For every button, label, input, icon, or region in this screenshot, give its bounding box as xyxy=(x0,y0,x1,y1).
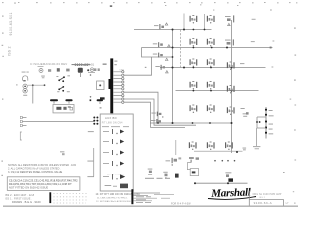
fuse F1 dark body xyxy=(50,99,58,103)
resistor R20 xyxy=(207,81,215,90)
svg-text:NOTES: ALL RESISTORS 1/4W 5% U: NOTES: ALL RESISTORS 1/4W 5% UNLESS STAT… xyxy=(8,164,77,167)
svg-text:AUX BD: AUX BD xyxy=(105,116,117,120)
svg-text:NOT FITTED ON 9100-62 ISSUE: NOT FITTED ON 9100-62 ISSUE xyxy=(9,185,48,189)
svg-text:ISS 2: ISS 2 xyxy=(8,46,12,56)
vertical stub into sigma cluster xyxy=(175,140,177,155)
label marks under trimmer xyxy=(41,76,45,79)
opto stage row 1 arrow Q10 xyxy=(120,130,124,134)
svg-text:2. ALL CAPACITORS IN uF UNLESS: 2. ALL CAPACITORS IN uF UNLESS STATED . xyxy=(8,168,61,171)
output network cluster xyxy=(225,172,233,181)
border zone tick marks top xyxy=(2,2,297,4)
parts table box xyxy=(7,177,80,191)
PCB edge connector polarising bump xyxy=(109,79,111,89)
aux board bottom row marks xyxy=(105,184,128,189)
node dot G xyxy=(87,69,89,71)
capacitor C1 (dark body) xyxy=(78,68,83,77)
revision table rule 3 xyxy=(134,197,170,199)
net mark near bus start xyxy=(145,67,147,68)
resistor R21 xyxy=(227,85,235,94)
wire pin10 to lower bus xyxy=(124,102,185,127)
wire to CN5 upper xyxy=(257,117,266,128)
ground stub 3 xyxy=(87,175,94,178)
dash row lower left xyxy=(145,178,170,179)
vertical net wire long xyxy=(172,30,174,124)
switch SW1b lever xyxy=(57,86,70,92)
resistor R4 xyxy=(66,69,69,72)
resistor R11 xyxy=(207,15,215,24)
svg-text:ISS 2 . ECN 1047 . 12-8: ISS 2 . ECN 1047 . 12-8 xyxy=(5,194,35,197)
marks beside connector top xyxy=(114,61,117,66)
net flag triangle 3 xyxy=(165,58,168,60)
wire pin2 to net xyxy=(124,48,173,76)
svg-text:FIT LINK ON CN4: FIT LINK ON CN4 xyxy=(102,123,123,125)
svg-text:9100-63.S01: 9100-63.S01 xyxy=(9,12,13,35)
resistor R13 xyxy=(190,38,198,47)
ground stub 1 xyxy=(88,130,94,133)
wire pin9 to lower bus xyxy=(124,99,196,125)
PCB edge connector black bar xyxy=(110,58,113,113)
svg-text:DRG No 9100 PWR AMP: DRG No 9100 PWR AMP xyxy=(253,193,282,196)
net flag triangle 2 xyxy=(168,45,171,47)
diode D6 cluster xyxy=(151,119,161,124)
diode D5 cluster xyxy=(151,112,163,118)
svg-text:12. SET BIAS 38mV ACROSS R60: 12. SET BIAS 38mV ACROSS R60 xyxy=(96,200,131,203)
vertical stub top 2 xyxy=(204,14,206,30)
Marshall logo underline swash xyxy=(208,197,256,200)
title block left border xyxy=(248,191,250,206)
junction dot grid node F xyxy=(93,117,98,125)
relay RL1 box xyxy=(53,105,74,113)
opto stage row 3 arrow Q12 xyxy=(120,151,124,155)
drawing file name vertical text left margin xyxy=(9,12,13,35)
opto stage row 1: LED D10 xyxy=(103,129,118,134)
capacitor C3 dark body xyxy=(100,97,105,99)
wire CN3 to aux board xyxy=(27,121,95,123)
opto stage row 5 arrow Q14 xyxy=(120,174,125,179)
opto stage row 4: LED D13 xyxy=(103,161,118,166)
connector CN2 pin leads xyxy=(113,72,121,102)
aux board rule dashes xyxy=(102,125,129,128)
node dot J xyxy=(227,182,229,184)
connector CN5 spine xyxy=(265,107,267,139)
return bus wire xyxy=(150,122,232,124)
resistor R18 xyxy=(227,62,235,71)
capacitor C4 pair xyxy=(94,68,100,71)
revision table rule 2 xyxy=(134,194,174,197)
vertical stub top 1 xyxy=(183,14,185,30)
ground bracket xyxy=(20,132,22,140)
lamp LP1 label xyxy=(22,71,29,74)
resistor R24 xyxy=(227,107,235,116)
fuse F3 dark body xyxy=(97,99,103,104)
connector CN5 pads xyxy=(265,109,267,134)
opto stage row 2 arrow Q11 xyxy=(120,140,124,144)
diode D3 cluster xyxy=(153,53,163,58)
title block divider xyxy=(249,200,283,206)
svg-text:9100-63-A: 9100-63-A xyxy=(254,201,273,205)
title block right ticks xyxy=(293,191,296,203)
resistor R2 xyxy=(48,69,51,72)
net flag triangle 1 xyxy=(165,23,168,25)
resistor R23 xyxy=(207,105,215,114)
resistor R26 xyxy=(207,142,215,151)
node dot D xyxy=(90,74,92,76)
dark tick top centre xyxy=(110,5,112,6)
svg-text:3. C9,C12 DENOTES PANEL CONTRO: 3. C9,C12 DENOTES PANEL CONTROL VALUE xyxy=(8,171,63,174)
IC U2 box xyxy=(190,169,198,176)
connector CN5 pin labels xyxy=(269,110,274,134)
fuse F2 dark body xyxy=(65,99,72,103)
feedback bus wire xyxy=(176,90,259,92)
border zone marks right edge xyxy=(270,10,296,174)
net flag triangle 5 xyxy=(228,23,231,25)
resistor R19 xyxy=(190,81,198,90)
spare dash right col row2 xyxy=(251,40,255,43)
svg-text:ISS 2: ISS 2 xyxy=(259,197,266,199)
resistor R27 xyxy=(225,142,233,151)
node dot B xyxy=(44,84,46,86)
revision table black divider xyxy=(49,192,51,203)
resistor R25 xyxy=(189,142,197,151)
zener ZD1 cluster xyxy=(225,15,234,22)
vertical bus wire col3 xyxy=(231,20,233,153)
svg-text:FOR R-4 P 4-5W: FOR R-4 P 4-5W xyxy=(171,203,191,206)
trimmer VR1 xyxy=(38,66,44,72)
input jack J1 xyxy=(23,84,27,96)
HT supply bus wire xyxy=(134,29,212,31)
node dots CN5 xyxy=(256,121,260,123)
output rail wire xyxy=(195,182,248,184)
bias bus wire xyxy=(142,47,273,49)
node dot I xyxy=(194,182,196,184)
resistor R3 xyxy=(57,68,60,71)
svg-text:C5,C8,C14,C19,C23,C31,C42,R11,: C5,C8,C14,C19,C23,C31,C42,R11,R18,R26,R3… xyxy=(9,178,78,182)
capacitor C2 xyxy=(88,68,95,73)
spare marks right col xyxy=(240,63,245,109)
bus end tick xyxy=(270,47,272,49)
left margin ticks xyxy=(1,16,3,176)
wire aux vertical xyxy=(93,148,95,177)
ground stub marks xyxy=(253,146,260,149)
second row fragment of bold header xyxy=(72,64,91,65)
svg-text:C:\SCHEMA\9100-63 REV: C:\SCHEMA\9100-63 REV xyxy=(30,62,67,66)
resistor R34 xyxy=(163,172,167,179)
lower link wire xyxy=(194,150,243,152)
zener ZD2 cluster xyxy=(225,39,234,45)
revision table rule 1 xyxy=(134,192,160,194)
thermistor TH1 cluster xyxy=(243,112,249,117)
margin tick xyxy=(16,84,18,85)
bracket mark xyxy=(187,163,190,170)
spare dash right col row1 xyxy=(252,18,256,21)
lower link end cluster xyxy=(243,148,247,151)
opto stage row 2: LED D11 xyxy=(103,139,118,144)
wire node row xyxy=(28,84,45,86)
centre black divider tick xyxy=(131,189,133,204)
net flag triangle 4 xyxy=(166,71,169,73)
junction dots on buses xyxy=(157,29,232,125)
connector CN3 pins xyxy=(20,116,26,126)
resistor R14 xyxy=(207,38,215,47)
revision table rule 4 xyxy=(134,200,152,202)
lamp LP1 arch xyxy=(23,76,28,82)
svg-text:11. LINK CN6 PIN 2 TO PIN 4 .: 11. LINK CN6 PIN 2 TO PIN 4 . xyxy=(97,197,128,199)
capacitor C22 xyxy=(148,169,153,175)
vertical net wire dashed xyxy=(180,30,182,70)
opto stage row 5: LED D14 xyxy=(103,174,118,180)
spare gate cluster xyxy=(60,151,65,155)
resistor R22 xyxy=(190,105,198,114)
svg-text:--- -- ---- --: --- -- ---- -- xyxy=(107,173,124,176)
switch SW1a lever xyxy=(56,75,70,82)
wire CN5 down xyxy=(256,128,258,146)
cluster sigma: capacitor C20 xyxy=(166,157,182,165)
node dot E xyxy=(90,96,92,98)
ground stub 2 xyxy=(87,160,93,163)
resistor R17 xyxy=(207,59,215,68)
revision table cell text xyxy=(136,196,151,202)
resistor R16 xyxy=(190,59,198,68)
svg-text:R44,R51,R63,TR4,TR7,D9,D11,ZD3: R44,R51,R63,TR4,TR7,D9,D11,ZD3,VR2,L1,CN… xyxy=(9,182,72,186)
transistor Q22 dark xyxy=(175,174,179,178)
connector CN2 pins xyxy=(122,71,124,104)
drive bus wire xyxy=(160,67,266,69)
component K1 box xyxy=(97,81,104,90)
sheet issue vertical text left margin xyxy=(8,46,12,56)
opto stage row 4 arrow Q13 xyxy=(120,162,124,166)
wire pin7 to lower bus xyxy=(124,92,158,123)
revision table dotted columns xyxy=(54,194,89,203)
node dot H xyxy=(236,151,238,153)
node dot C xyxy=(90,99,92,101)
stray dot right xyxy=(290,99,292,100)
test point label mark xyxy=(100,107,102,108)
svg-text:DRAWN . B.E.G . 9100: DRAWN . B.E.G . 9100 xyxy=(12,200,41,204)
scattered top dots xyxy=(165,4,238,10)
diode D4 cluster xyxy=(155,65,165,70)
resistor R10 xyxy=(190,15,198,24)
node dot A xyxy=(32,84,34,86)
diode D2 cluster xyxy=(153,42,163,47)
wire J1 down xyxy=(32,85,34,103)
aux board box xyxy=(100,114,133,191)
header note small mark xyxy=(103,63,107,65)
opto stage row 3: LED D12 xyxy=(103,150,118,155)
border frame bottom line xyxy=(3,206,298,207)
cluster xi: resistor R30 xyxy=(189,157,199,163)
node dots row 1 xyxy=(214,160,235,162)
diode D1 cluster xyxy=(154,24,164,29)
